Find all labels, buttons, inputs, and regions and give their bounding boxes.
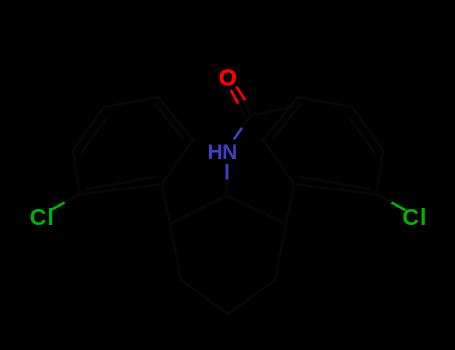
amide N-C1 bond blue half <box>235 127 243 139</box>
svg-text:Cl: Cl <box>30 204 55 230</box>
right Cl bond green half <box>391 202 405 210</box>
right aryl ring <box>263 97 383 194</box>
left aryl to cyclohexane bond <box>162 184 170 224</box>
svg-text:Cl: Cl <box>402 204 427 230</box>
amide N-C1 bond carbon half <box>243 116 251 128</box>
acetyl CH3 stub <box>251 107 294 116</box>
left aryl ring <box>73 97 193 194</box>
right aryl to cyclohexane bond <box>286 184 294 224</box>
left Cl bond green half <box>52 202 66 210</box>
N-C5 bond blue half <box>226 165 229 181</box>
svg-text:O: O <box>219 65 237 91</box>
svg-text:HN: HN <box>208 141 237 164</box>
right Cl bond carbon half <box>376 194 390 202</box>
carbonyl C=O double bond red halves <box>231 87 245 104</box>
carbonyl C=O double bond carbon halves <box>239 101 251 118</box>
left Cl bond carbon half <box>66 194 80 202</box>
N-C5 bond carbon half <box>226 181 229 196</box>
bottom cyclohexane ring <box>170 195 286 314</box>
